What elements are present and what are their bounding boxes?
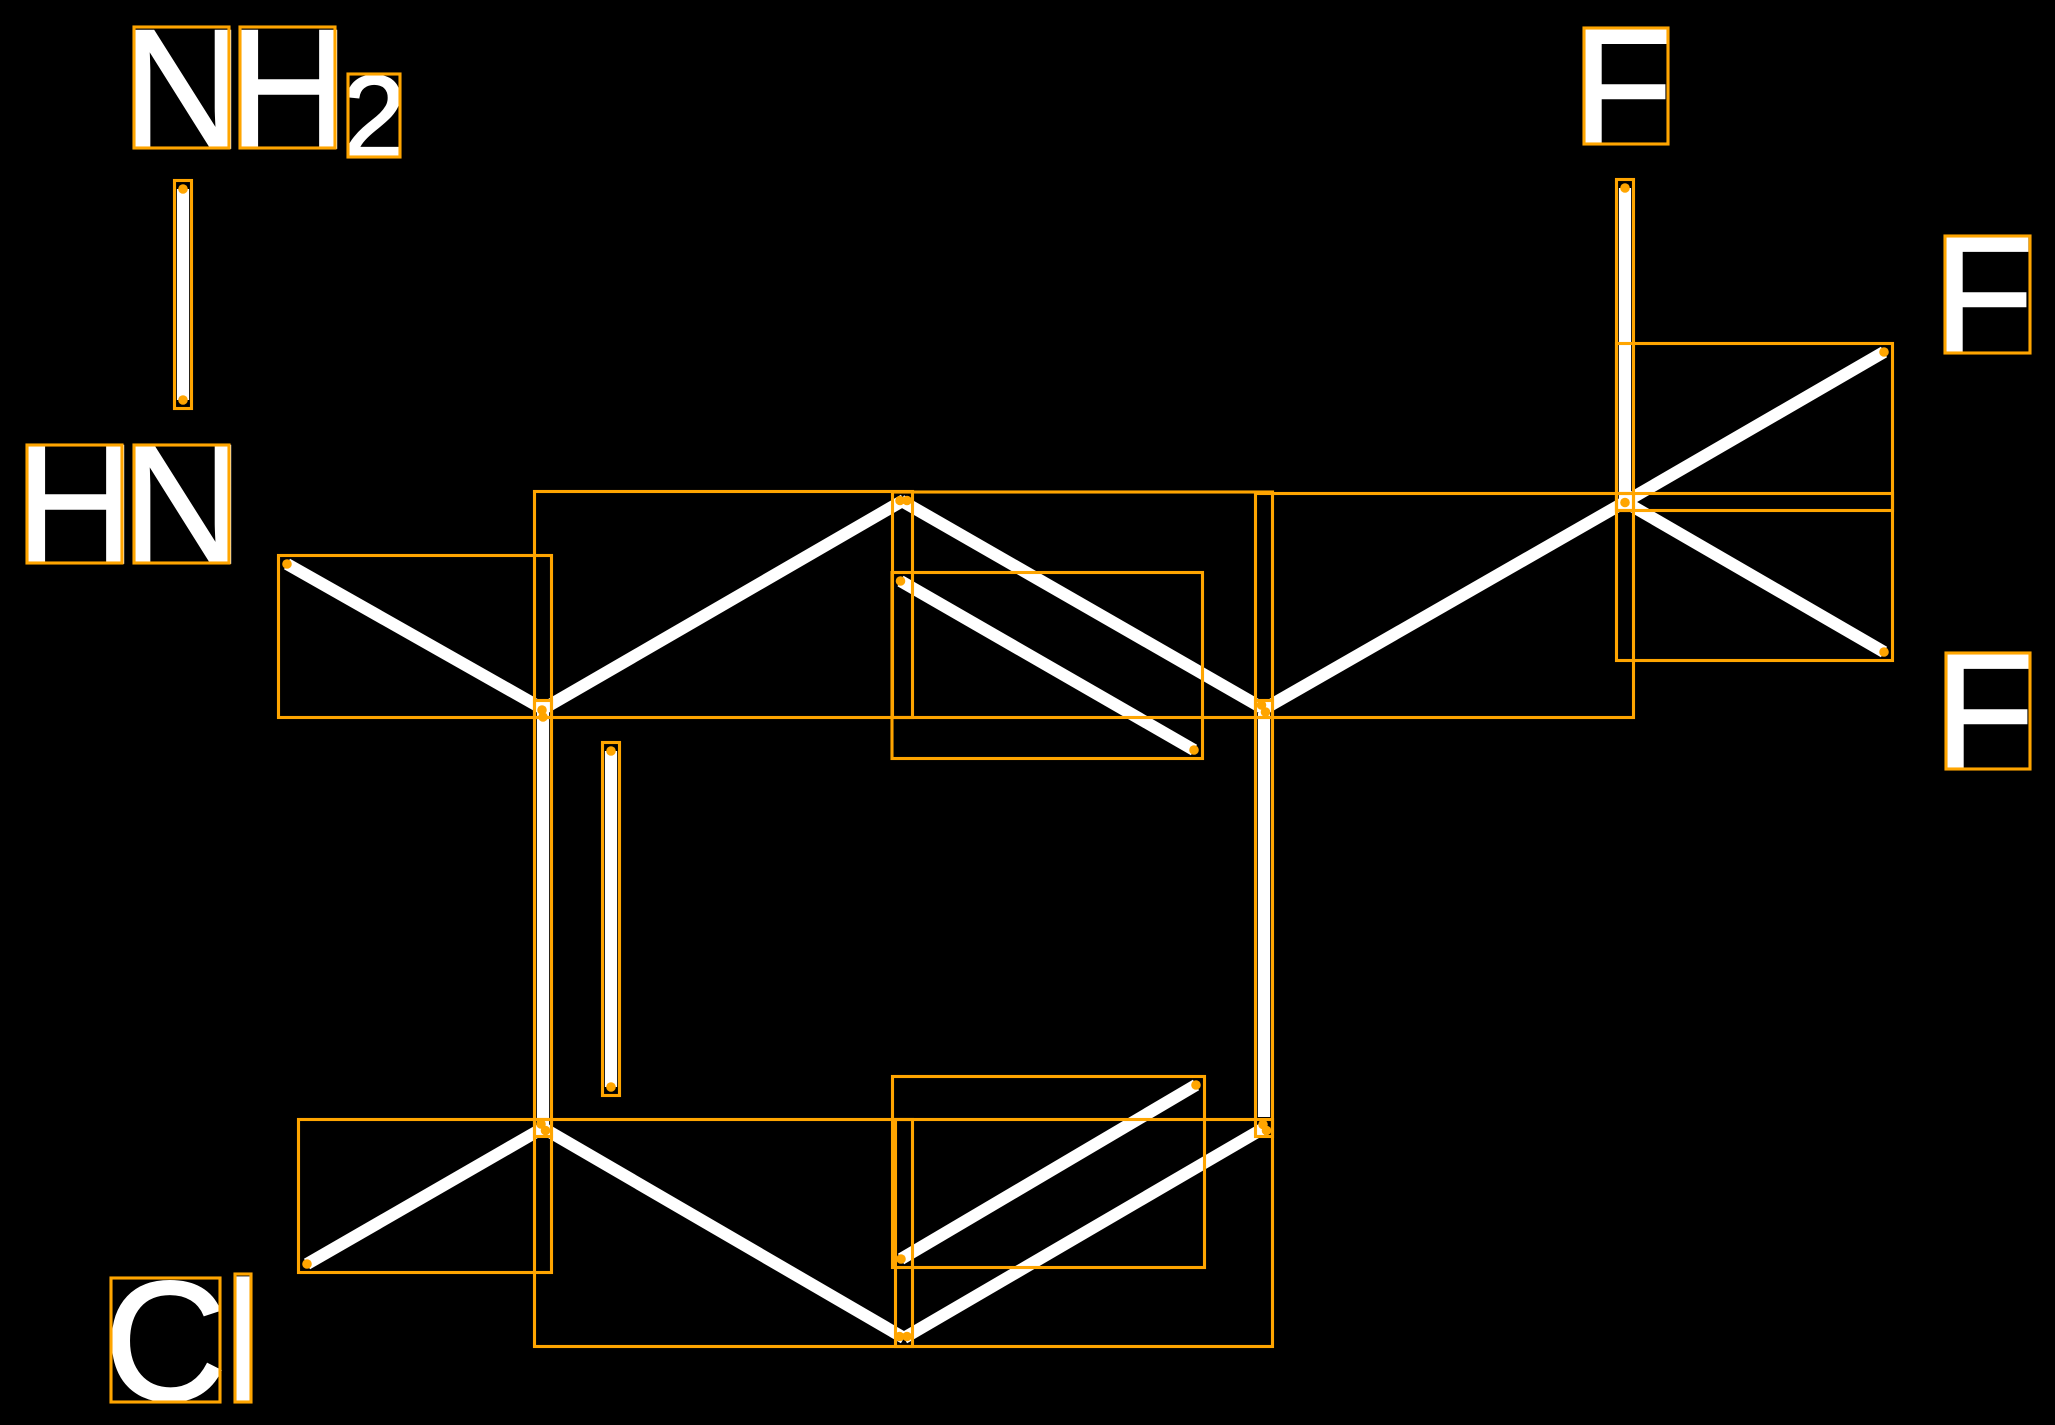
svg-text:F: F [1934, 620, 2035, 805]
annotation box of bond C3-C4 (ring vertical) [1256, 701, 1273, 1137]
endpoint dots of C4=C5 inner line [896, 1080, 1201, 1264]
annotation box of bond C1-C2 (ring) [535, 492, 913, 718]
node C1 endpoint dots [537, 705, 548, 722]
svg-text:F: F [1933, 203, 2034, 388]
annotation box of atom label H of HN [27, 445, 122, 563]
annotation box of bond C4=C5 main line (ring) [896, 1120, 1273, 1347]
annotation box of atom label F2 (right) [1945, 236, 2030, 353]
endpoint dots of bond N1-N2 [178, 184, 188, 405]
bond C6=C1 inner line (ring) [605, 751, 617, 1087]
annotation box of bond C7-F3 (lower right) [1617, 494, 1893, 661]
endpoint dot of bond C6-Cl at Cl label [302, 1259, 312, 1269]
bond C2=C3 main line (ring) [901, 501, 1264, 710]
endpoint dot of bond C7-F1 at F label [1620, 183, 1630, 193]
annotation box of bond C7-F1 (vertical) [1617, 180, 1634, 511]
annotation box of atom label N of NH2 [134, 27, 229, 148]
bond C7-F3 (lower right) [1625, 502, 1884, 652]
node C7 endpoint dot (CF3 carbon) [1620, 498, 1630, 508]
bond N2-C1 (NH to ring C1) [287, 564, 543, 709]
svg-text:2: 2 [342, 51, 407, 181]
bond C3-C7 (ring to CF3 carbon) [1264, 502, 1625, 709]
annotation box of bond C4=C5 inner line (ring) [893, 1077, 1205, 1268]
endpoint dot of bond N2-C1 at NH label [282, 559, 292, 569]
annotation box of bond C2=C3 inner line (ring) [892, 573, 1203, 759]
annotation box of bond C6-Cl (ring to chlorine) [299, 1120, 552, 1273]
annotation box of bond C6=C1 inner line (ring) [603, 743, 620, 1096]
annotation box of bond C2=C3 main line (ring) [893, 492, 1273, 718]
node C2 endpoint dots [895, 496, 912, 506]
endpoint dot of bond C7-F3 at F label [1879, 647, 1889, 657]
endpoint dots of C2=C3 inner line [896, 576, 1199, 755]
bond C4=C5 inner line (ring) [901, 1085, 1196, 1259]
bond C7-F1 (vertical) [1619, 188, 1631, 502]
node C3 endpoint dots [1257, 700, 1271, 717]
svg-text:C: C [104, 1247, 227, 1425]
annotation box of atom label F3 (lower right) [1946, 653, 2030, 769]
bond C5-C6 (ring) [543, 1128, 904, 1338]
annotation box of bond N2-C1 (NH to ring C1) [279, 556, 552, 718]
endpoint dot of bond C7-F2 at F label [1879, 347, 1889, 357]
bond C2=C3 inner line (ring) [901, 581, 1195, 750]
annotation box of atom label C of Cl [111, 1278, 220, 1402]
node C5 endpoint dots [895, 1332, 912, 1342]
svg-text:N: N [121, 410, 244, 600]
bond N1-N2 (NH2 to NH) [177, 189, 189, 400]
bond C4=C5 main line (ring) [904, 1128, 1264, 1338]
node C6 endpoint dots [536, 1119, 550, 1135]
annotation box of atom label l of Cl [235, 1274, 251, 1402]
bond C7-F2 (upper right) [1625, 352, 1884, 502]
annotation box of atom label N of HN [134, 445, 229, 563]
annotation box of atom label F1 (top) [1584, 28, 1668, 144]
bond C6-Cl (ring to chlorine) [307, 1128, 543, 1264]
node C4 endpoint dots [1258, 1120, 1271, 1136]
annotation box of bond C7-F2 (upper right) [1617, 344, 1893, 511]
annotation box of atom label H of NH2 [240, 27, 335, 148]
annotation box of atom label subscript 2 of NH2 [348, 74, 400, 157]
annotation box of bond C3-C7 (ring to CF3 carbon) [1256, 494, 1634, 718]
endpoint dots of C6=C1 inner line [606, 746, 616, 1092]
bond C3-C4 (ring vertical) [1258, 713, 1270, 1117]
annotation box of bond C6=C1 main line (ring vertical) [535, 701, 552, 1137]
bond C6=C1 main line (ring vertical) [537, 709, 549, 1128]
annotation box of bond N1-N2 (NH2 to NH) [175, 181, 192, 409]
svg-text:H: H [14, 410, 137, 600]
annotation box of bond C5-C6 (ring) [535, 1120, 913, 1347]
bond C1-C2 (ring) [543, 500, 904, 709]
